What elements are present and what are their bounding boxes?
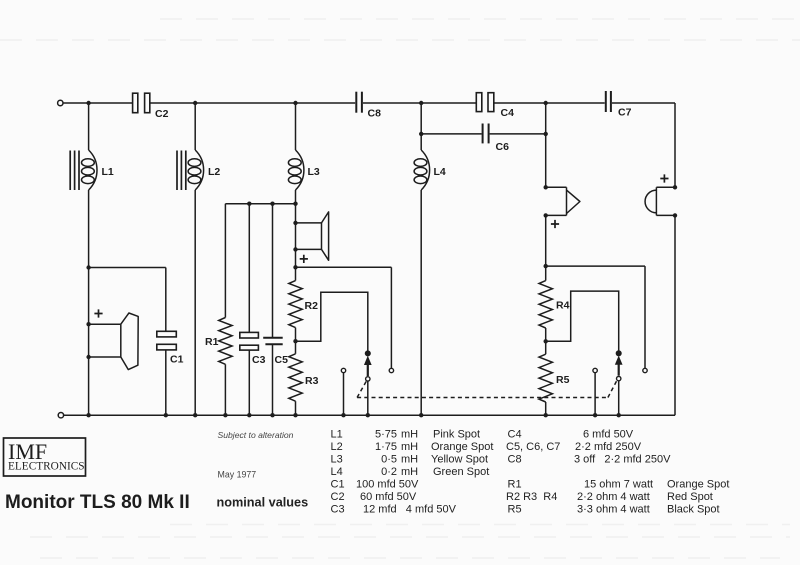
svg-text:L1: L1 (102, 166, 114, 178)
svg-text:C5: C5 (275, 354, 289, 366)
svg-text:60 mfd 50V: 60 mfd 50V (360, 491, 417, 503)
svg-text:R2: R2 (305, 300, 319, 312)
svg-text:Yellow Spot: Yellow Spot (431, 454, 488, 466)
svg-text:Red Spot: Red Spot (667, 491, 713, 503)
svg-text:6 mfd 50V: 6 mfd 50V (583, 429, 634, 441)
svg-text:C4: C4 (508, 429, 522, 441)
svg-text:C4: C4 (501, 107, 515, 119)
svg-text:15 ohm 7 watt: 15 ohm 7 watt (584, 479, 653, 491)
svg-text:mH: mH (401, 466, 418, 478)
svg-text:nominal values: nominal values (217, 496, 309, 510)
svg-text:0·5: 0·5 (381, 454, 397, 466)
svg-text:R5: R5 (556, 374, 570, 386)
svg-text:R1: R1 (205, 336, 219, 348)
svg-text:May 1977: May 1977 (218, 470, 257, 480)
svg-text:C6: C6 (496, 141, 510, 153)
svg-text:3 off 2·2 mfd 250V: 3 off 2·2 mfd 250V (574, 454, 671, 466)
svg-text:Green Spot: Green Spot (433, 466, 489, 478)
svg-text:C3: C3 (331, 504, 345, 516)
svg-text:mH: mH (401, 429, 418, 441)
svg-text:1·75: 1·75 (375, 441, 397, 453)
svg-text:L4: L4 (434, 166, 446, 178)
svg-text:R1: R1 (508, 479, 522, 491)
svg-text:C1: C1 (331, 479, 345, 491)
svg-text:mH: mH (401, 454, 418, 466)
svg-text:Pink Spot: Pink Spot (433, 429, 480, 441)
svg-text:Monitor TLS 80 Mk II: Monitor TLS 80 Mk II (5, 492, 190, 513)
svg-text:R3: R3 (305, 375, 319, 387)
svg-text:2·2 mfd 250V: 2·2 mfd 250V (575, 441, 642, 453)
svg-text:C1: C1 (170, 354, 184, 366)
svg-text:2·2 ohm 4 watt: 2·2 ohm 4 watt (577, 491, 650, 503)
svg-text:ELECTRONICS: ELECTRONICS (8, 461, 85, 473)
svg-text:Orange Spot: Orange Spot (431, 441, 493, 453)
svg-text:C8: C8 (368, 108, 382, 120)
svg-text:12 mfd 4 mfd 50V: 12 mfd 4 mfd 50V (363, 504, 457, 516)
svg-text:C2: C2 (331, 491, 345, 503)
svg-text:100 mfd 50V: 100 mfd 50V (356, 479, 419, 491)
svg-text:5·75: 5·75 (375, 429, 397, 441)
svg-text:mH: mH (401, 441, 418, 453)
svg-text:C2: C2 (155, 108, 169, 120)
svg-text:L2: L2 (331, 441, 343, 453)
svg-text:Black Spot: Black Spot (667, 504, 720, 516)
svg-text:C8: C8 (508, 454, 522, 466)
svg-text:0·2: 0·2 (381, 466, 397, 478)
svg-text:L2: L2 (208, 166, 220, 178)
svg-text:R4: R4 (556, 300, 570, 312)
svg-text:L4: L4 (331, 466, 343, 478)
svg-text:Subject to alteration: Subject to alteration (218, 430, 294, 440)
svg-text:R5: R5 (508, 504, 522, 516)
svg-text:L1: L1 (331, 429, 343, 441)
svg-text:C7: C7 (618, 107, 632, 119)
svg-text:Orange Spot: Orange Spot (667, 479, 729, 491)
svg-text:3·3 ohm 4 watt: 3·3 ohm 4 watt (577, 504, 650, 516)
svg-text:L3: L3 (308, 166, 320, 178)
svg-text:L3: L3 (331, 454, 343, 466)
svg-text:C3: C3 (252, 354, 266, 366)
svg-text:C5, C6, C7: C5, C6, C7 (506, 441, 560, 453)
svg-text:R2 R3 R4: R2 R3 R4 (506, 491, 557, 503)
